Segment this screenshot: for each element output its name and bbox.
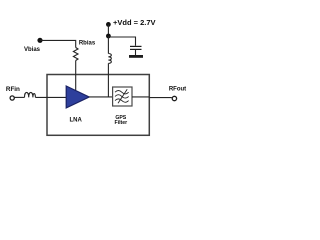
wire Rbias bottom into box to LNA top — [75, 61, 77, 91]
port RFout (open terminal) — [172, 96, 176, 100]
module box (LNA + filter enclosure) — [47, 75, 149, 136]
wire junction down to inductor — [107, 36, 109, 54]
filter icon diagonal slash — [118, 89, 127, 103]
wire LNA output to filter — [89, 96, 113, 98]
svg-text:+Vdd = 2.7V: +Vdd = 2.7V — [113, 18, 156, 27]
capacitor C1 bottom plate — [130, 49, 142, 50]
wire Vdd down to junction — [107, 24, 109, 36]
node Vbias — [37, 38, 42, 43]
port RFin (open terminal) — [10, 96, 14, 100]
wire filter to RFout — [132, 96, 172, 99]
filter block GPS (box) — [113, 87, 132, 106]
amplifier LNA (triangle) — [66, 86, 89, 108]
svg-text:Vbias: Vbias — [24, 47, 41, 53]
resistor Rbias — [73, 48, 78, 61]
wire junction to capacitor — [108, 37, 135, 46]
filter icon wavy lines — [115, 91, 129, 103]
wire inductor bottom into box to output node — [107, 63, 109, 97]
capacitor C1 top plate — [130, 46, 142, 47]
junction node — [106, 34, 111, 39]
svg-text:LNA: LNA — [70, 117, 83, 123]
svg-text:Rbias: Rbias — [79, 41, 96, 47]
node +Vdd — [106, 22, 111, 27]
svg-text:RFin: RFin — [6, 86, 20, 93]
wire inductor to LNA input — [35, 96, 66, 98]
inductor L1 (Vdd choke) — [108, 54, 111, 64]
ground bar — [129, 55, 143, 58]
svg-text:RFout: RFout — [169, 86, 186, 92]
svg-text:Filter: Filter — [114, 120, 127, 126]
wire capacitor to ground — [135, 50, 137, 55]
inductor L2 (input match) — [25, 92, 36, 97]
wire RFin to matching inductor — [15, 96, 25, 98]
wire Vbias to Rbias top — [40, 40, 76, 47]
